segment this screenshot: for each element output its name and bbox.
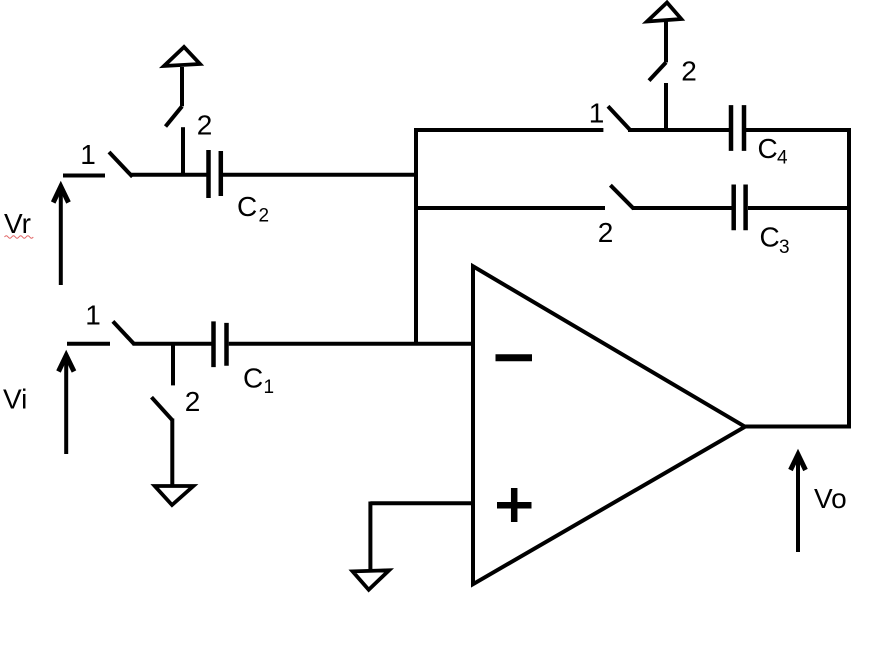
switch 2 (Vi branch, to ground) arm	[152, 397, 173, 420]
op-amp non-inverting input symbol (plus)	[497, 488, 532, 522]
clock phase symbol (open up-arrow triangle, left)	[164, 47, 200, 66]
op-amp inverting input symbol (minus)	[496, 354, 533, 361]
switch 2 (C4 row, to clock) arm	[649, 62, 666, 80]
node: junction stub up from C4 wire	[664, 83, 668, 130]
switch 1 (C4 row) arm	[608, 106, 630, 129]
svg-text:3: 3	[779, 237, 790, 258]
svg-text:4: 4	[777, 148, 788, 169]
svg-text:2: 2	[185, 386, 201, 417]
clock phase symbol (open up-arrow triangle, right)	[647, 3, 681, 22]
svg-text:C: C	[758, 133, 778, 164]
wire: non-inverting input	[370, 501, 473, 505]
svg-text:1: 1	[264, 377, 275, 398]
wire: bus to switch 1 of C4 row	[414, 128, 603, 132]
wire: switch 2 down to ground	[170, 419, 174, 486]
output arrow Vo	[791, 455, 806, 553]
label C2	[237, 191, 269, 227]
switch 2 (Vr branch, to clock) arm	[166, 106, 183, 126]
label C3	[760, 222, 790, 259]
wire: Vi switch to C1	[133, 342, 212, 346]
node: junction stub down from Vi wire	[171, 344, 175, 386]
svg-text:2: 2	[681, 56, 697, 87]
capacitor C3	[734, 185, 746, 231]
wire: C2 to summing bus	[223, 173, 416, 177]
wire: Vr input terminal	[63, 174, 105, 178]
svg-text:2: 2	[598, 217, 614, 248]
wire: down to ground at + input	[368, 502, 372, 572]
label C1	[243, 363, 274, 398]
switch 2 (C3 row) arm	[610, 185, 633, 209]
wire: Vr switch to C2	[131, 173, 207, 177]
wire: C1 to op-amp inverting input	[229, 342, 473, 346]
switch 1 (Vr branch) arm	[109, 152, 133, 177]
wire: bus to switch 2 of C3 row	[414, 206, 605, 210]
capacitor C4	[731, 105, 744, 151]
ground (op-amp + input)	[353, 570, 390, 589]
svg-text:C: C	[237, 191, 257, 222]
wire: switch 2 to clock symbol (right)	[664, 22, 668, 63]
svg-text:2: 2	[197, 110, 213, 141]
capacitor C2	[209, 150, 221, 198]
svg-text:1: 1	[80, 139, 96, 170]
input arrow Vi	[59, 356, 75, 455]
svg-text:Vr: Vr	[4, 208, 31, 239]
svg-text:C: C	[760, 222, 780, 253]
input arrow Vr	[53, 187, 68, 286]
svg-text:1: 1	[85, 299, 101, 330]
svg-text:Vi: Vi	[3, 384, 27, 415]
wire: C4 to output bus	[746, 128, 851, 132]
wire: switch 1 to C4	[628, 128, 731, 132]
wire: C3 to output bus	[748, 206, 851, 210]
label Vr	[4, 208, 33, 239]
node: summing bus (vertical)	[414, 128, 418, 344]
wire: op-amp output	[745, 425, 851, 429]
wire: switch 2 to clock symbol	[180, 67, 184, 106]
svg-text:C: C	[243, 363, 263, 394]
wire: output feedback bus (right vertical)	[847, 128, 851, 427]
switch 1 (Vi branch) arm	[113, 321, 134, 344]
svg-text:1: 1	[589, 97, 605, 128]
op-amp U1	[473, 266, 745, 584]
wire: switch 2 to C3	[632, 206, 734, 210]
svg-text:2: 2	[259, 205, 270, 226]
node: junction stub up from Vr wire	[181, 127, 185, 175]
capacitor C1	[214, 321, 227, 367]
wire: Vi input terminal	[67, 342, 110, 346]
svg-text:Vo: Vo	[814, 483, 847, 514]
label C4	[758, 133, 789, 168]
ground (under Vi switch 2)	[155, 486, 194, 505]
